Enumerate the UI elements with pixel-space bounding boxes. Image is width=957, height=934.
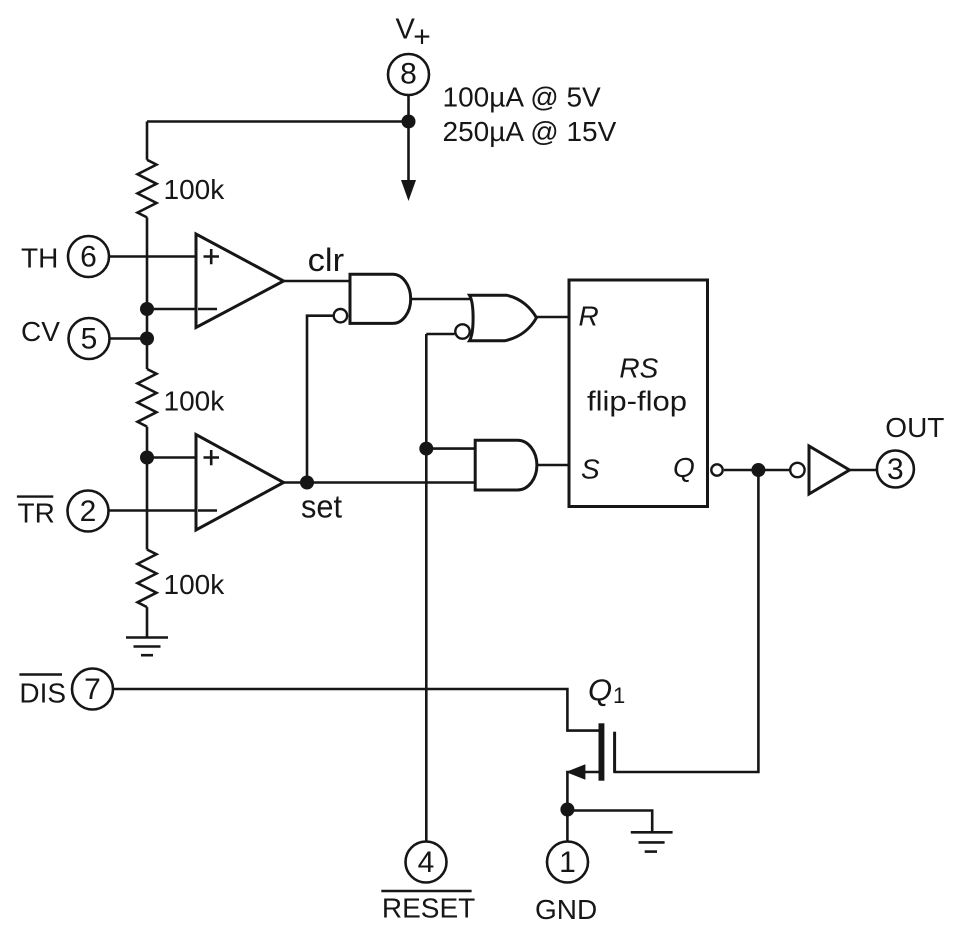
svg-text:100µA @ 5V: 100µA @ 5V bbox=[443, 82, 602, 113]
svg-text:1: 1 bbox=[613, 683, 625, 708]
svg-text:R: R bbox=[579, 300, 599, 331]
svg-text:OUT: OUT bbox=[885, 412, 944, 443]
svg-text:250µA @ 15V: 250µA @ 15V bbox=[443, 116, 617, 147]
svg-text:4: 4 bbox=[418, 846, 435, 879]
svg-text:CV: CV bbox=[21, 316, 60, 347]
svg-text:set: set bbox=[301, 489, 342, 525]
svg-text:DIS: DIS bbox=[19, 678, 66, 709]
svg-text:100k: 100k bbox=[164, 569, 226, 600]
svg-text:S: S bbox=[581, 453, 600, 484]
svg-text:Q: Q bbox=[588, 673, 612, 708]
svg-text:Q: Q bbox=[673, 452, 695, 483]
svg-text:100k: 100k bbox=[164, 174, 226, 205]
svg-text:5: 5 bbox=[81, 323, 98, 356]
svg-text:TR: TR bbox=[18, 498, 55, 529]
svg-text:100k: 100k bbox=[164, 386, 226, 417]
svg-text:RESET: RESET bbox=[382, 893, 475, 924]
svg-text:+: + bbox=[413, 21, 431, 54]
svg-text:3: 3 bbox=[887, 453, 904, 486]
svg-text:8: 8 bbox=[400, 58, 417, 91]
svg-text:GND: GND bbox=[535, 894, 597, 925]
svg-text:7: 7 bbox=[84, 673, 101, 706]
svg-text:RS: RS bbox=[619, 353, 658, 384]
svg-text:1: 1 bbox=[559, 846, 576, 879]
svg-text:6: 6 bbox=[80, 241, 97, 274]
svg-text:TH: TH bbox=[21, 243, 58, 274]
svg-text:flip-flop: flip-flop bbox=[587, 386, 687, 417]
svg-text:2: 2 bbox=[80, 495, 97, 528]
svg-text:clr: clr bbox=[308, 242, 345, 278]
